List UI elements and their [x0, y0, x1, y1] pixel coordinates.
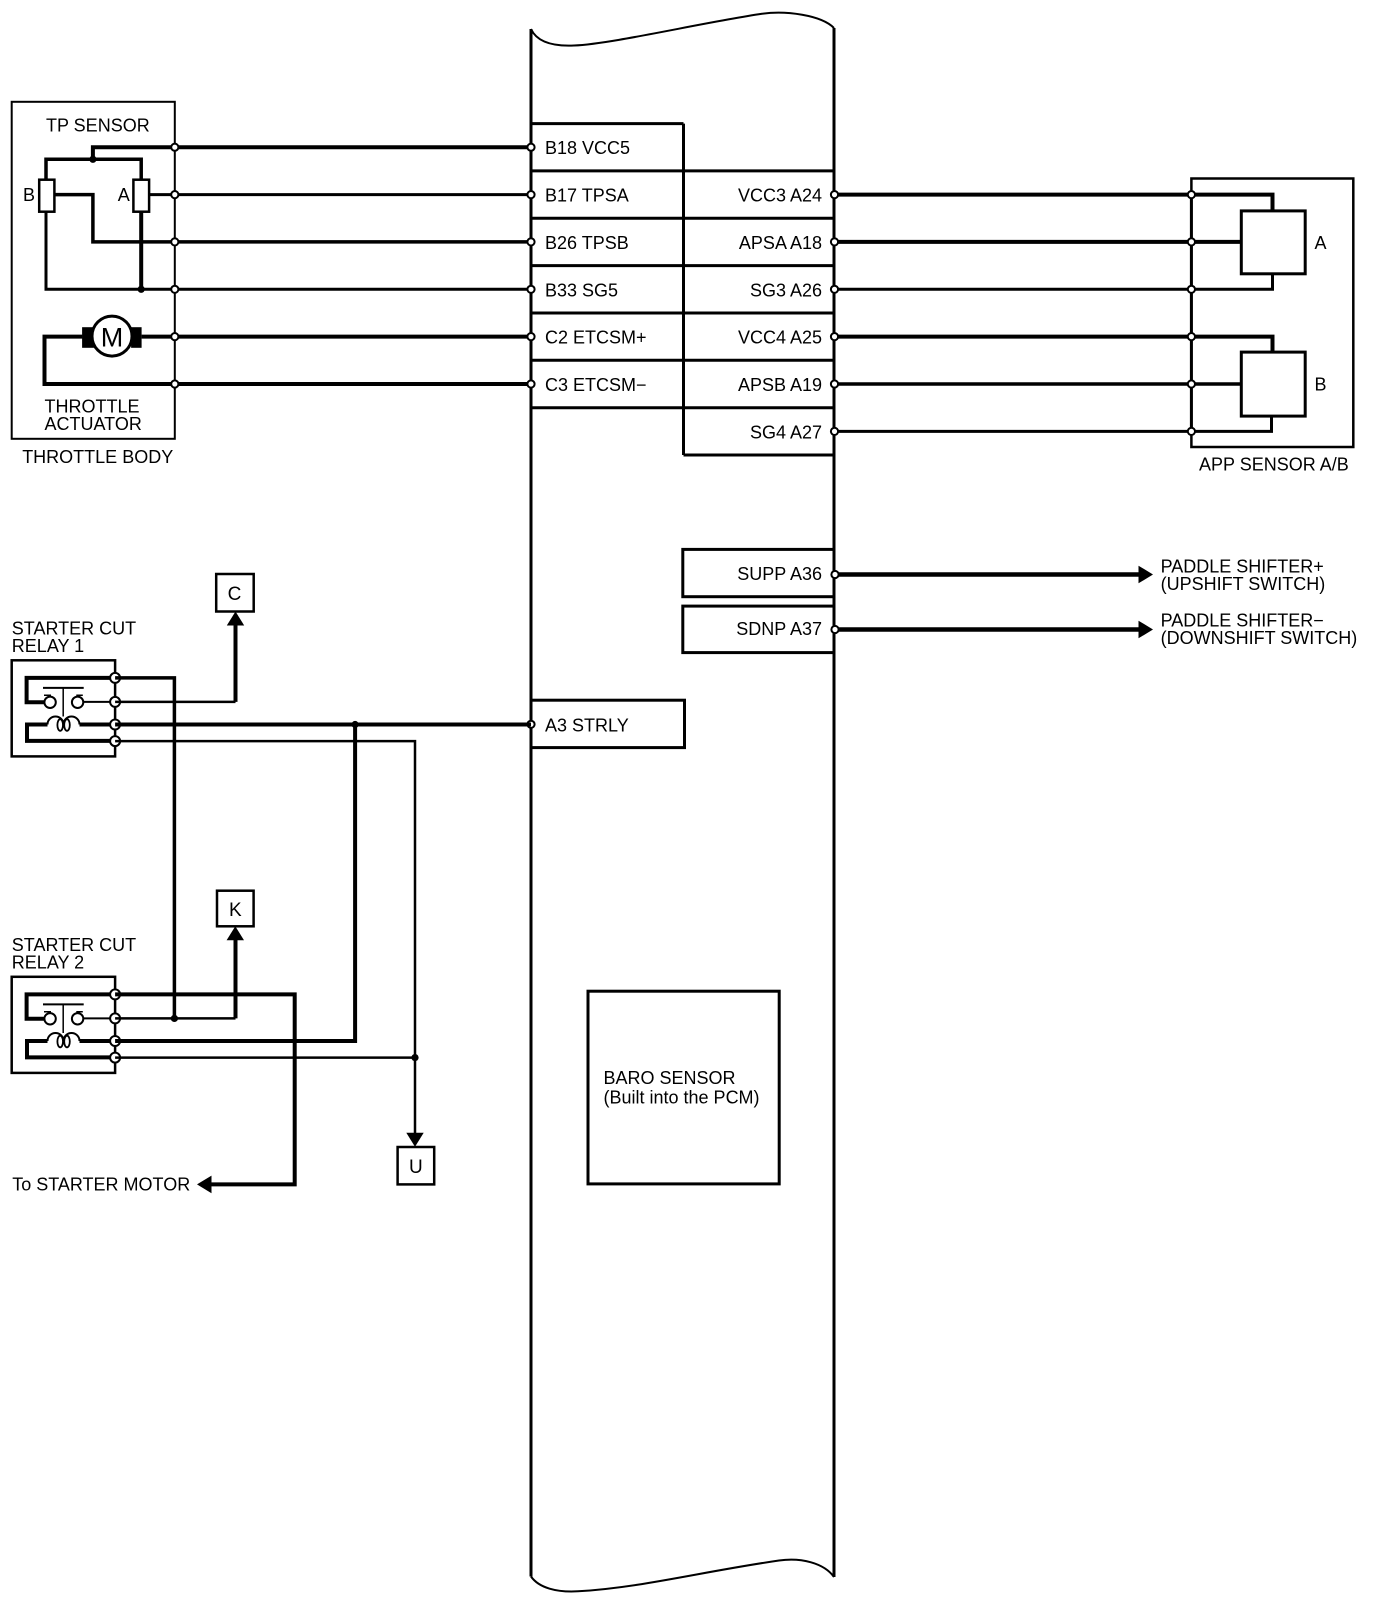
junction relay1 pin1 net — [171, 1015, 178, 1022]
wire APSA A18 — [834, 240, 1241, 244]
PCM pin box grid line row5 — [531, 359, 834, 362]
relay 2 contact feed wire pin1 internal — [27, 994, 116, 1018]
pin label APSB A19 — [738, 375, 822, 395]
PCM pin box grid line row1 — [531, 169, 834, 172]
throttle body box — [12, 102, 175, 439]
throttle actuator motor M1 — [82, 316, 142, 356]
svg-text:VCC4 A25: VCC4 A25 — [738, 328, 822, 348]
pin label B17 TPSA — [545, 186, 629, 206]
wire relay1 pin1 to relay2 pin2 net — [115, 678, 174, 1019]
svg-text:THROTTLE BODY: THROTTLE BODY — [22, 447, 173, 467]
junction ground rail — [138, 286, 145, 293]
wire VCC3 A24 — [834, 195, 1273, 211]
svg-text:C: C — [228, 584, 242, 605]
pin label VCC3 A24 — [738, 186, 822, 206]
relay 1 contact points — [44, 697, 83, 708]
wire relay1 pin3 to A3 STRLY — [115, 723, 531, 727]
svg-text:APSB A19: APSB A19 — [738, 375, 822, 395]
wire relay1 pin2 to connector C — [115, 612, 244, 702]
PCM band bottom torn edge — [531, 1560, 834, 1592]
label To STARTER MOTOR — [12, 1175, 190, 1195]
svg-text:K: K — [229, 900, 242, 921]
wire relay2 pin1 to starter motor — [115, 994, 295, 1193]
APP sensor element B — [1241, 352, 1305, 416]
pin label C3 ETCSM- — [545, 375, 647, 395]
TP sensor connector pin circles — [171, 144, 178, 388]
label THROTTLE BODY — [22, 447, 173, 467]
svg-text:M: M — [101, 322, 124, 352]
APP sensor connector rail — [1190, 195, 1193, 432]
starter cut relay 2 box — [12, 977, 115, 1073]
APP sensor element A — [1241, 211, 1305, 274]
relay 1 contact feed wire pin1 internal — [27, 678, 116, 702]
svg-text:B26 TPSB: B26 TPSB — [545, 233, 629, 253]
svg-text:U: U — [409, 1157, 423, 1178]
relay 2 coil return wire pin4 internal — [27, 1041, 115, 1057]
pin label B18 VCC5 — [545, 138, 630, 158]
wire B26 TPSB from resistor B — [54, 195, 531, 242]
svg-text:VCC3 A24: VCC3 A24 — [738, 186, 822, 206]
wire VCC4 A25 — [834, 337, 1273, 353]
svg-text:SG3 A26: SG3 A26 — [750, 280, 822, 300]
starter cut relay 1 box — [12, 660, 115, 756]
wire SUPP A36 to upshift switch — [838, 566, 1153, 584]
pin label SG3 A26 — [750, 280, 822, 300]
wire APSB A19 — [834, 382, 1241, 386]
relay 1 switch output wire pin2 internal — [83, 701, 115, 703]
wire relay2 pin3 to A3 net — [115, 725, 355, 1042]
resistor A — [133, 180, 149, 212]
wire relay2 pin2 to connector K — [115, 926, 244, 1018]
svg-text:C3 ETCSM−: C3 ETCSM− — [545, 375, 647, 395]
wire SDNP A37 to downshift switch — [838, 621, 1153, 639]
PCM pin box grid line row2 — [531, 217, 834, 220]
label STARTER CUT RELAY 1 — [12, 619, 136, 656]
resistor B — [39, 180, 54, 212]
label PADDLE SHIFTER+ (UPSHIFT SWITCH) — [1161, 557, 1326, 594]
pin label VCC4 A25 — [738, 328, 822, 348]
PCM pin box grid line row4 — [531, 312, 834, 315]
svg-text:TP SENSOR: TP SENSOR — [46, 115, 150, 135]
relay 2 contact points — [44, 1013, 83, 1024]
PCM band left edge wire — [530, 29, 533, 1577]
svg-text:APSA A18: APSA A18 — [739, 233, 822, 253]
svg-text:RELAY 1: RELAY 1 — [12, 636, 84, 656]
wire relay1 pin4 to connector U net — [115, 741, 415, 1058]
label STARTER CUT RELAY 2 — [12, 935, 136, 972]
pin label B26 TPSB — [545, 233, 629, 253]
relay 2 coil wire pin3 internal — [80, 1039, 116, 1043]
A3 STRLY pin box — [531, 700, 685, 747]
svg-text:SDNP A37: SDNP A37 — [736, 619, 822, 639]
svg-text:B17 TPSA: B17 TPSA — [545, 186, 629, 206]
label PADDLE SHIFTER- (DOWNSHIFT SWITCH) — [1161, 611, 1358, 649]
SUPP A36 pin box — [683, 549, 834, 596]
label A — [1315, 233, 1327, 253]
svg-text:RELAY 2: RELAY 2 — [12, 952, 84, 972]
pin label C2 ETCSM+ — [545, 328, 647, 348]
relay 2 coil L2 — [48, 1033, 80, 1047]
wire resistor A to ground rail — [139, 212, 143, 291]
relay 1 coil L1 — [48, 717, 80, 731]
wire B17 TPSA from resistor A — [149, 193, 531, 196]
svg-text:(Built into the PCM): (Built into the PCM) — [604, 1088, 760, 1108]
relay 1 armature — [43, 688, 84, 717]
svg-text:ACTUATOR: ACTUATOR — [45, 414, 142, 434]
wire C3 ETCSM- to motor — [45, 337, 532, 384]
svg-text:A3 STRLY: A3 STRLY — [545, 715, 629, 735]
pin label SUPP A36 — [737, 564, 822, 584]
label B — [1315, 374, 1327, 394]
svg-text:B: B — [1315, 374, 1327, 394]
relay 1 pin circles — [110, 673, 120, 746]
label THROTTLE ACTUATOR — [45, 396, 142, 434]
label TP SENSOR — [46, 115, 150, 135]
svg-text:(UPSHIFT SWITCH): (UPSHIFT SWITCH) — [1161, 574, 1326, 594]
wire SG3 A26 — [834, 274, 1273, 290]
svg-text:A: A — [1315, 233, 1327, 253]
wire SG4 A27 — [834, 416, 1272, 431]
PCM band right edge wire — [833, 28, 836, 1577]
svg-text:APP SENSOR A/B: APP SENSOR A/B — [1199, 455, 1349, 475]
svg-text:B18 VCC5: B18 VCC5 — [545, 138, 630, 158]
wire TP sensor supply rail — [46, 159, 141, 179]
svg-text:To STARTER MOTOR: To STARTER MOTOR — [12, 1175, 190, 1195]
SDNP A37 pin box — [683, 606, 834, 653]
PCM pin box grid top line B18 — [531, 122, 684, 125]
junction supply rail — [89, 156, 96, 163]
pin label SG4 A27 — [750, 422, 822, 442]
wire B18 VCC5 to TP sensor — [93, 147, 531, 159]
connector C — [216, 574, 254, 612]
PCM pin box grid divider — [682, 124, 685, 455]
PCM right pin circles — [831, 191, 839, 633]
connector K — [217, 891, 254, 927]
pin label B33 SG5 — [545, 280, 618, 300]
relay 2 switch output wire pin2 internal — [83, 1017, 115, 1019]
label A — [118, 185, 130, 205]
relay 2 armature — [43, 1004, 84, 1033]
wire relay2 pin4 junction — [115, 1054, 419, 1061]
pin label APSA A18 — [739, 233, 822, 253]
svg-text:BARO SENSOR: BARO SENSOR — [604, 1068, 736, 1088]
label BARO SENSOR (Built into the PCM) — [604, 1068, 760, 1108]
APP sensor box — [1191, 179, 1353, 448]
relay 1 coil return wire pin4 internal — [27, 725, 115, 741]
relay 1 coil wire pin3 internal — [80, 723, 116, 727]
APP sensor connector pin circles — [1188, 191, 1195, 435]
BARO sensor box — [588, 991, 779, 1184]
svg-text:A: A — [118, 185, 130, 205]
svg-text:B: B — [23, 185, 35, 205]
label B — [23, 185, 35, 205]
pin label SDNP A37 — [736, 619, 822, 639]
svg-text:SUPP A36: SUPP A36 — [737, 564, 822, 584]
svg-text:B33 SG5: B33 SG5 — [545, 280, 618, 300]
wire C2 ETCSM+ to motor — [142, 335, 531, 339]
junction A3 wire — [352, 721, 359, 728]
PCM pin box grid line row3 — [531, 264, 834, 267]
PCM left pin circles — [527, 144, 534, 728]
PCM pin box grid line row6 — [531, 406, 834, 409]
svg-text:SG4 A27: SG4 A27 — [750, 422, 822, 442]
PCM band top torn edge — [531, 13, 834, 46]
wire B33 SG5 ground rail — [46, 212, 531, 290]
pin label A3 STRLY — [545, 715, 629, 735]
label APP SENSOR A/B — [1199, 455, 1349, 475]
PCM pin box grid bottom line SG4 — [684, 454, 835, 457]
relay 2 pin circles — [110, 989, 120, 1062]
wire to connector U — [406, 1058, 423, 1147]
svg-text:C2 ETCSM+: C2 ETCSM+ — [545, 328, 647, 348]
svg-text:(DOWNSHIFT SWITCH): (DOWNSHIFT SWITCH) — [1161, 628, 1358, 648]
connector U — [398, 1147, 435, 1184]
